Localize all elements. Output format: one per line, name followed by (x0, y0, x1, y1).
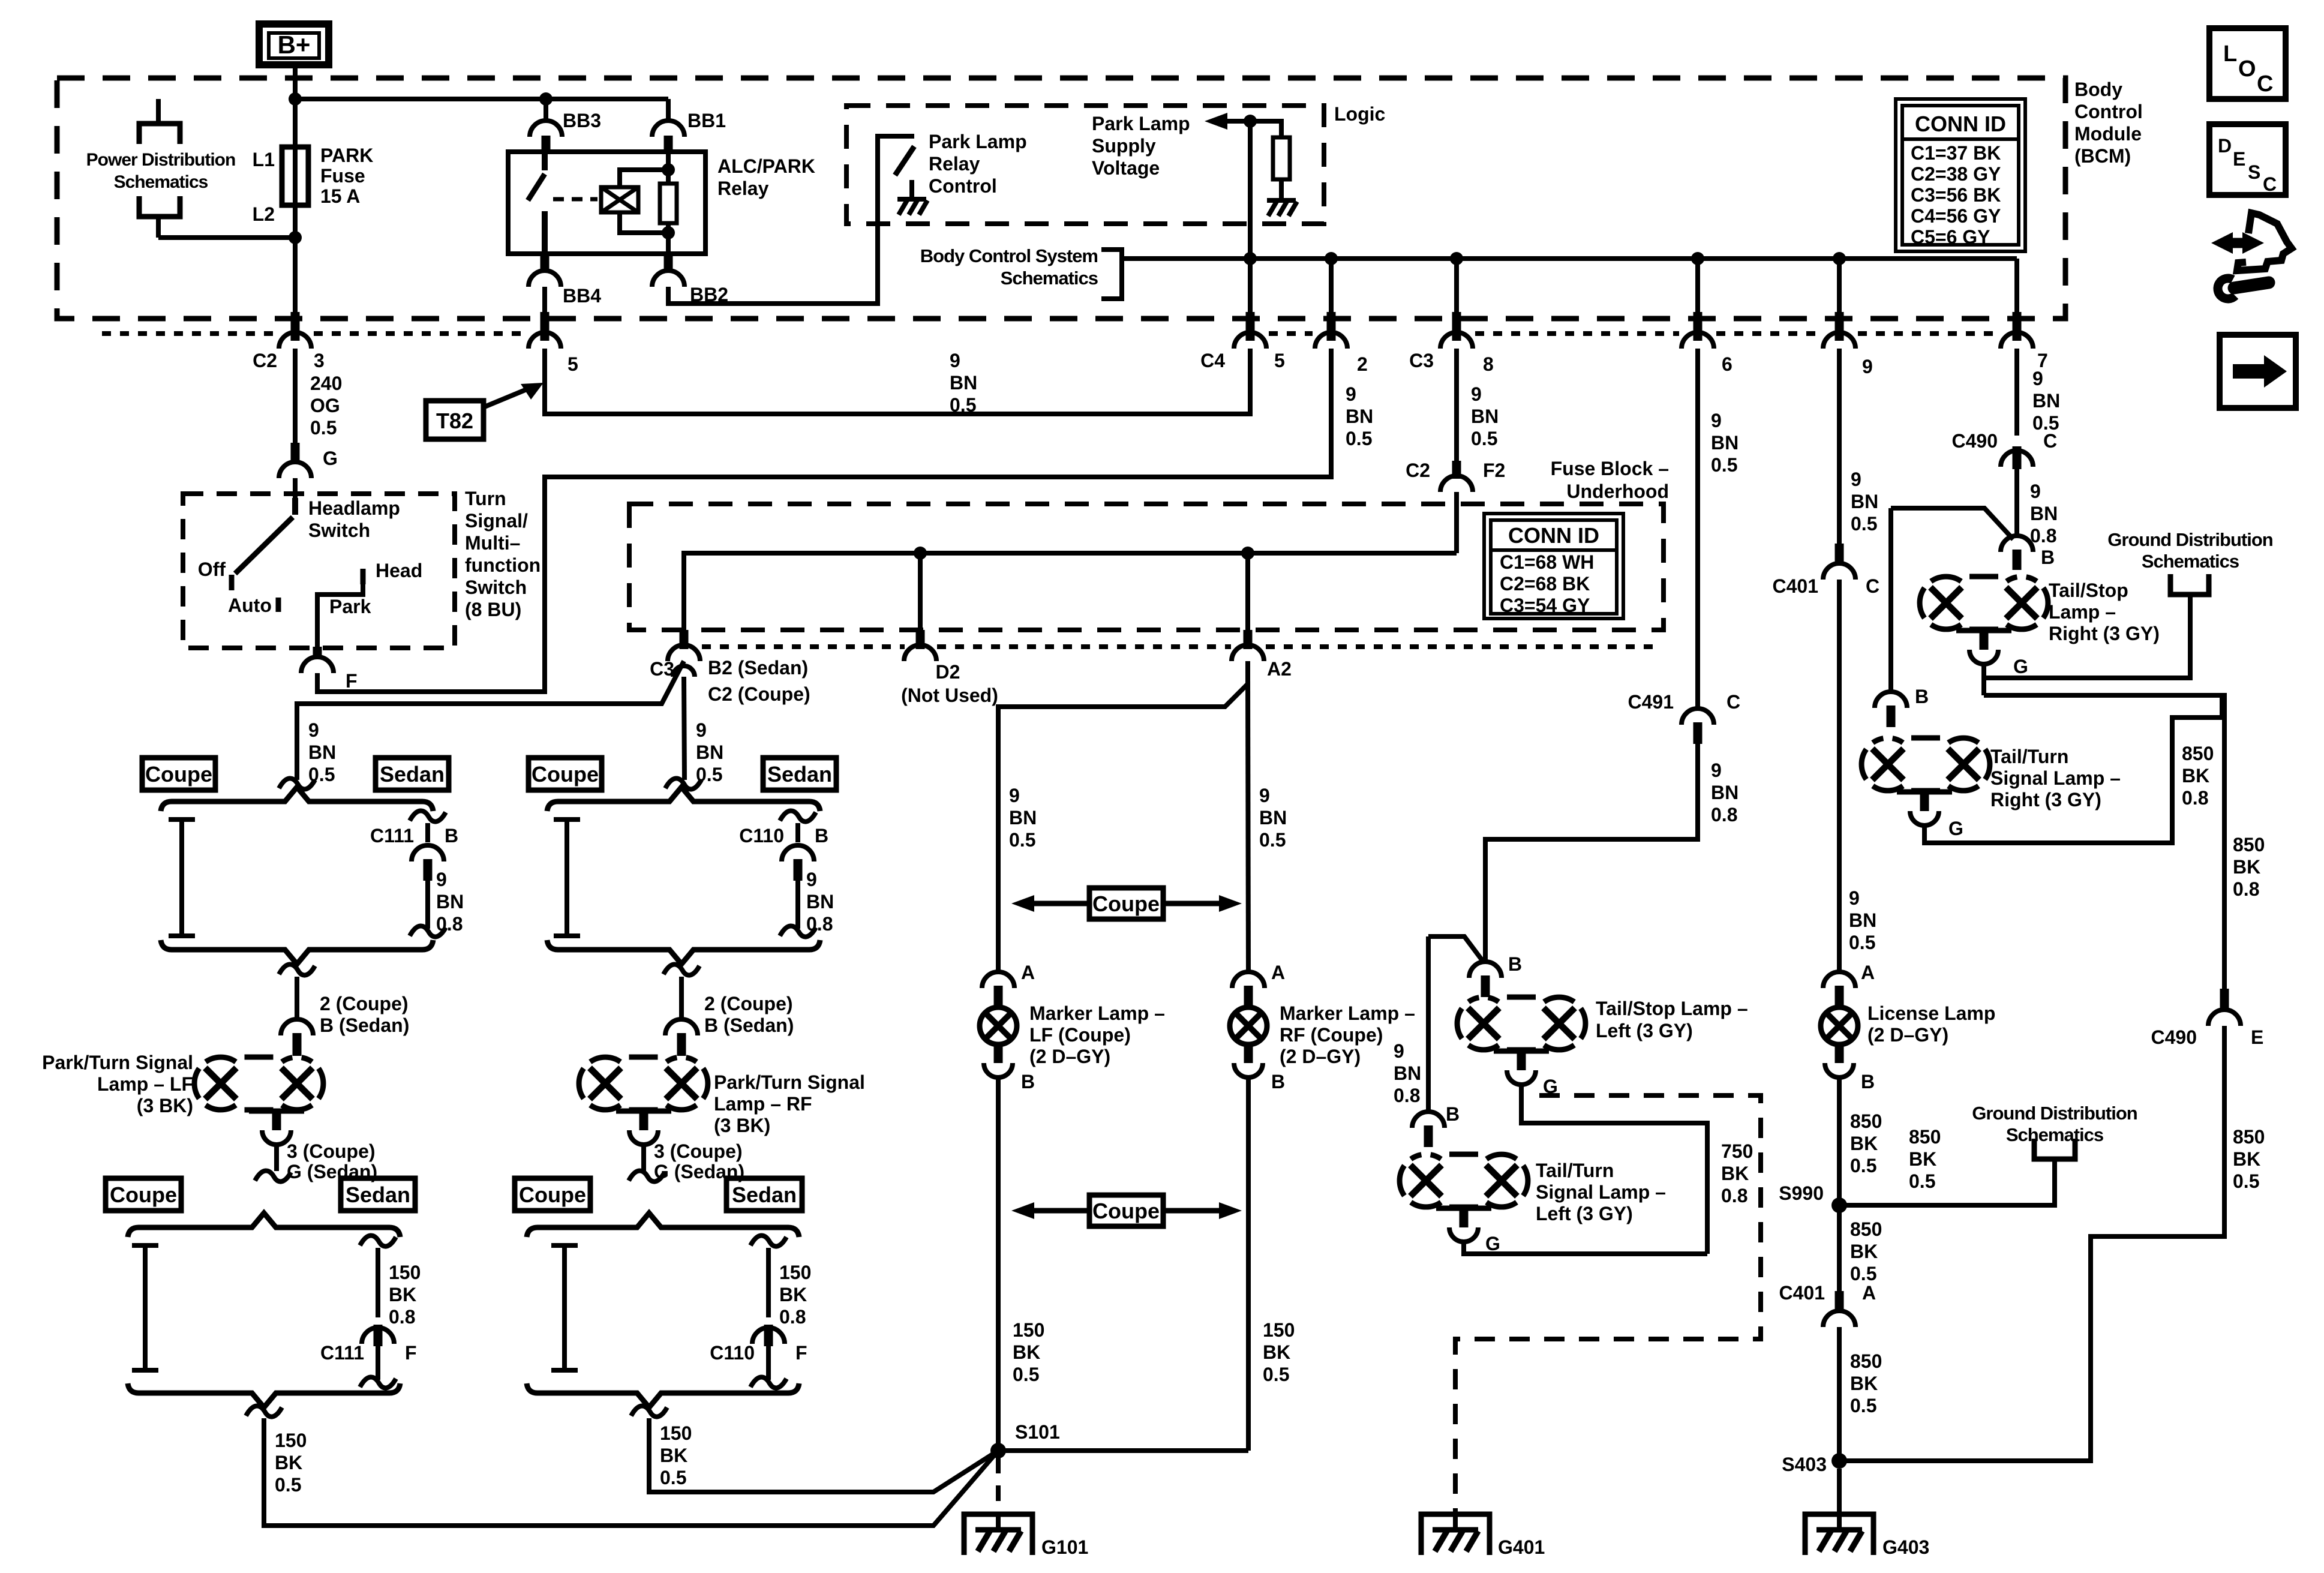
svg-text:(3 BK): (3 BK) (137, 1095, 193, 1116)
connector tail turn right pin B (1875, 692, 1907, 708)
wire Sedan rail LF upper (410, 810, 446, 821)
relay coil (601, 187, 638, 212)
junction dot bus pin6 (1691, 252, 1704, 265)
svg-text:850: 850 (2233, 834, 2265, 855)
svg-text:BK: BK (2233, 1148, 2260, 1170)
svg-text:Sedan: Sedan (767, 762, 832, 786)
svg-text:9: 9 (1471, 383, 1482, 405)
svg-text:(2 D–GY): (2 D–GY) (1029, 1046, 1110, 1067)
junction dot supply voltage (1244, 115, 1257, 128)
svg-text:BK: BK (1850, 1241, 1878, 1262)
svg-text:(3 BK): (3 BK) (714, 1115, 770, 1136)
brace LF options bottom (128, 1213, 400, 1237)
node Coupe option box LF bottom (106, 1178, 181, 1211)
node S101 splice (990, 1443, 1006, 1458)
wire connector dotted line fuse block (702, 644, 905, 649)
svg-text:Marker Lamp –: Marker Lamp – (1280, 1002, 1415, 1024)
dashed box Fuse Block Underhood (629, 504, 1664, 630)
wire BB4 down (542, 287, 547, 341)
node S990 splice (1831, 1197, 1847, 1213)
svg-text:BK: BK (1850, 1373, 1878, 1394)
svg-text:Sedan: Sedan (346, 1182, 410, 1207)
lamp Park/Turn Signal Lamp LF (205, 1068, 236, 1099)
connector pin 7 BCM (2013, 312, 2022, 341)
svg-text:BN: BN (1394, 1062, 1421, 1084)
svg-text:BK: BK (779, 1284, 807, 1305)
wire B+ feed to relay (295, 97, 668, 101)
wire tail stop right G main run (1984, 695, 2224, 989)
svg-text:5: 5 (568, 353, 578, 375)
svg-text:B2 (Sedan): B2 (Sedan) (708, 657, 808, 679)
svg-text:S990: S990 (1779, 1182, 1824, 1204)
svg-text:Coupe: Coupe (110, 1182, 177, 1207)
wire S990 down to C401-A (1837, 1205, 1842, 1293)
wire pin9 vertical (1837, 259, 1842, 341)
svg-text:Sedan: Sedan (732, 1182, 797, 1207)
icon DESC box (2209, 124, 2286, 195)
wire pin6 vertical (1695, 259, 1700, 341)
svg-text:C490: C490 (2151, 1026, 2197, 1048)
svg-text:CONN ID: CONN ID (1915, 112, 2006, 136)
wire fuse block internal rail (684, 553, 1457, 630)
svg-text:Signal Lamp –: Signal Lamp – (1536, 1181, 1666, 1203)
svg-text:850: 850 (1850, 1110, 1882, 1132)
connector pin 9 BCM (1835, 312, 1844, 341)
connector inline headlamp switch pin G (291, 443, 300, 463)
svg-text:0.8: 0.8 (436, 913, 463, 935)
svg-text:2: 2 (1357, 353, 1368, 375)
svg-text:B (Sedan): B (Sedan) (320, 1014, 409, 1036)
wire S403 ground stub (1837, 1469, 1842, 1514)
svg-text:Coupe: Coupe (145, 762, 212, 786)
brace LF options top close (161, 940, 433, 964)
svg-text:L1: L1 (253, 149, 275, 170)
svg-text:BN: BN (1711, 782, 1739, 803)
svg-text:Body Control System: Body Control System (920, 245, 1098, 266)
svg-text:0.5: 0.5 (1346, 428, 1372, 449)
wire to pull-up resistor (1250, 121, 1281, 139)
brace RF options top close (547, 940, 820, 964)
wire coil bottom (620, 212, 668, 233)
svg-text:Tail/Stop: Tail/Stop (2049, 580, 2128, 601)
wire A2 to RF marker (1248, 677, 1248, 972)
svg-text:0.5: 0.5 (660, 1467, 686, 1488)
wire A2 drop (1245, 553, 1250, 630)
svg-text:0.5: 0.5 (1850, 1263, 1876, 1284)
svg-text:C110: C110 (710, 1342, 755, 1364)
wire S101 to RF marker return (998, 1448, 1248, 1453)
svg-text:3 (Coupe): 3 (Coupe) (287, 1140, 376, 1162)
svg-text:D2: D2 (936, 661, 960, 683)
svg-text:5: 5 (1274, 350, 1285, 371)
svg-text:Supply: Supply (1092, 135, 1156, 157)
svg-text:C: C (2043, 430, 2057, 452)
svg-text:A: A (1862, 1282, 1876, 1304)
svg-text:Voltage: Voltage (1092, 157, 1160, 179)
icon dog troubleshooting hints (2223, 238, 2252, 248)
wire squiggle LF feed (279, 778, 315, 789)
connector C111 pin F (362, 1328, 394, 1344)
node Sedan option box RF top (763, 758, 836, 790)
svg-text:Park/Turn Signal: Park/Turn Signal (714, 1071, 865, 1093)
svg-text:BK: BK (1263, 1341, 1290, 1363)
connector C491 pin C (1682, 709, 1714, 725)
wire supply voltage arrow (1213, 119, 1250, 124)
svg-text:0.8: 0.8 (389, 1306, 415, 1328)
resistor logic pull-down (1273, 137, 1290, 179)
wire C2-3 down to headlamp switch (293, 349, 298, 443)
svg-text:C2=68 BK: C2=68 BK (1500, 573, 1590, 595)
wire Coupe rail RF (554, 817, 580, 822)
svg-text:Switch: Switch (308, 520, 370, 541)
wire BB4-5 jumper to C4-5 (545, 349, 1250, 414)
svg-text:C: C (1866, 575, 1879, 597)
connector D2 not used (916, 630, 925, 649)
node Coupe option arrows lower (1089, 1195, 1163, 1226)
connector marker LF pin B (994, 1044, 1003, 1063)
svg-text:BN: BN (1711, 432, 1739, 454)
svg-text:BK: BK (1850, 1133, 1878, 1154)
wire license return to S990 (1837, 1077, 1842, 1205)
svg-text:BK: BK (2182, 765, 2209, 786)
svg-text:A2: A2 (1267, 658, 1292, 680)
reference bracket Power Distribution Schematics (156, 99, 161, 124)
junction dot coil bottom (662, 226, 675, 239)
wire Sedan rail RF upper (780, 810, 816, 821)
connector BB3 relay pin (544, 99, 548, 121)
svg-text:BK: BK (2233, 856, 2260, 878)
svg-text:L: L (2223, 41, 2237, 67)
svg-text:BB1: BB1 (687, 110, 726, 131)
svg-text:Park: Park (329, 596, 371, 617)
wire park turn RF ground pin (616, 1109, 671, 1114)
svg-text:G401: G401 (1498, 1536, 1545, 1558)
svg-text:S101: S101 (1015, 1421, 1060, 1443)
svg-text:C2 (Coupe): C2 (Coupe) (708, 683, 810, 705)
connector tail stop right pin B (2001, 536, 2033, 552)
svg-text:Relay: Relay (929, 153, 980, 175)
connector C490 pin E (2220, 989, 2229, 1010)
svg-text:Signal/: Signal/ (465, 510, 528, 532)
svg-text:C111: C111 (320, 1342, 364, 1364)
svg-text:(BCM): (BCM) (2074, 145, 2131, 167)
brace LF options top (161, 787, 433, 811)
svg-text:(2 D–GY): (2 D–GY) (1867, 1024, 1948, 1046)
svg-text:BN: BN (950, 372, 977, 394)
connector C2 pin F2 fuse block (1452, 461, 1461, 479)
svg-text:850: 850 (1850, 1218, 1882, 1240)
svg-text:S: S (2248, 161, 2260, 183)
svg-text:BN: BN (696, 742, 723, 763)
lamp License Lamp (1821, 1007, 1858, 1044)
svg-text:150: 150 (275, 1430, 307, 1451)
svg-text:Switch: Switch (465, 577, 527, 598)
svg-text:0.8: 0.8 (2233, 878, 2259, 900)
svg-text:850: 850 (2233, 1126, 2265, 1148)
svg-text:B: B (1915, 686, 1929, 707)
node Sedan option box LF top (376, 758, 449, 790)
svg-text:150: 150 (1263, 1319, 1295, 1341)
wire RF to park turn lamp (663, 964, 699, 975)
svg-text:C3=54 GY: C3=54 GY (1500, 595, 1590, 616)
svg-text:OG: OG (310, 395, 340, 416)
wire squiggle RF lower (629, 1170, 665, 1181)
icon LOC box (2209, 28, 2286, 99)
junction dot bus C4-5 (1244, 252, 1257, 265)
svg-text:G101: G101 (1041, 1536, 1088, 1558)
connector BB2 relay pin (664, 254, 673, 272)
svg-text:9: 9 (1862, 356, 1873, 377)
svg-text:C491: C491 (1628, 691, 1674, 713)
svg-text:C2: C2 (1406, 460, 1430, 481)
svg-text:0.5: 0.5 (1850, 1395, 1876, 1416)
wire tail stop left ground pin G (1494, 1049, 1549, 1054)
wire squiggle RF feed (665, 778, 701, 789)
svg-text:F: F (795, 1342, 807, 1364)
svg-text:function: function (465, 554, 541, 576)
junction dot below fuse (289, 231, 302, 244)
svg-text:Signal Lamp –: Signal Lamp – (1990, 767, 2121, 789)
svg-text:BN: BN (1346, 406, 1373, 427)
connector license lamp pin A (1823, 972, 1855, 988)
wire tail stop right ground pin G (1956, 628, 2011, 634)
node Coupe option box RF top (529, 758, 602, 790)
wire tail turn right G run (1924, 695, 2222, 843)
dashed box Headlamp Switch (183, 494, 455, 648)
ground G403 (1805, 1514, 1873, 1555)
svg-text:C2: C2 (253, 350, 277, 371)
lamp Tail/Stop Lamp Right (1930, 587, 1962, 619)
svg-text:Right (3 GY): Right (3 GY) (2049, 623, 2160, 644)
svg-text:0.5: 0.5 (1851, 513, 1877, 535)
connector pin 5 BCM (541, 312, 550, 341)
wire C401 to license lamp (1837, 580, 1842, 972)
svg-text:G: G (323, 448, 338, 469)
connector BB4 relay pin (541, 254, 550, 272)
svg-text:9: 9 (436, 869, 447, 890)
svg-text:C5=6 GY: C5=6 GY (1911, 226, 1990, 248)
svg-text:Power Distribution: Power Distribution (86, 150, 236, 170)
svg-text:F2: F2 (1483, 460, 1505, 481)
svg-text:(2 D–GY): (2 D–GY) (1280, 1046, 1361, 1067)
svg-text:B (Sedan): B (Sedan) (704, 1014, 794, 1036)
svg-text:BB4: BB4 (563, 285, 601, 307)
svg-text:0.5: 0.5 (1711, 454, 1737, 476)
wire 750 BK dashed ground run to G401 (1455, 1095, 1761, 1514)
svg-text:BK: BK (660, 1445, 687, 1466)
connector park turn LF pin 2-B (281, 1019, 313, 1035)
svg-text:2 (Coupe): 2 (Coupe) (320, 993, 409, 1014)
svg-text:9: 9 (1711, 760, 1722, 781)
wire Coupe rail RF bottom (551, 1243, 578, 1248)
svg-text:Lamp –: Lamp – (2049, 601, 2116, 623)
wire C401-A to S403 (1837, 1327, 1842, 1461)
svg-text:G403: G403 (1882, 1536, 1929, 1558)
wire marker RF return (1246, 1077, 1251, 1451)
svg-text:L2: L2 (253, 203, 275, 225)
node S403 splice (1831, 1453, 1847, 1469)
svg-text:0.8: 0.8 (806, 913, 833, 935)
wire Sedan rail LF bottom (360, 1235, 396, 1246)
svg-text:9: 9 (1259, 785, 1270, 806)
ground park lamp relay control internal (909, 180, 914, 199)
lamp Marker Lamp LF (980, 1007, 1017, 1044)
svg-text:Tail/Stop Lamp –: Tail/Stop Lamp – (1596, 998, 1748, 1019)
svg-text:A: A (1861, 962, 1875, 983)
svg-text:Schematics: Schematics (114, 172, 208, 192)
connector marker RF pin B (1244, 1044, 1253, 1063)
wire tail turn right ground pin G (1897, 789, 1952, 795)
svg-text:CONN ID: CONN ID (1508, 523, 1599, 548)
wire D2 drop (918, 553, 923, 630)
wire marker LF return (996, 1077, 1001, 1451)
junction dot bus C3-8 (1450, 252, 1463, 265)
svg-text:Multi–: Multi– (465, 532, 520, 554)
svg-text:150: 150 (389, 1262, 421, 1283)
svg-text:G: G (1485, 1233, 1500, 1254)
wire C3-B2 to LF branch (297, 661, 684, 780)
svg-text:T82: T82 (436, 409, 473, 433)
wire C3-B2 to RF branch (684, 677, 684, 780)
svg-text:(8 BU): (8 BU) (465, 599, 521, 620)
svg-text:ALC/PARK: ALC/PARK (717, 155, 815, 177)
wire bus corner to pin7 (2014, 259, 2019, 341)
svg-text:BN: BN (436, 891, 464, 912)
node Sedan option box RF bottom (726, 1178, 802, 1211)
svg-text:BK: BK (389, 1284, 416, 1305)
junction dot bus pin2 (1325, 252, 1338, 265)
svg-text:9: 9 (1394, 1040, 1404, 1062)
svg-text:Schematics: Schematics (2142, 551, 2239, 572)
svg-text:C111: C111 (370, 825, 414, 846)
svg-text:9: 9 (1711, 410, 1722, 431)
wire branch to tail turn right pin B (1891, 508, 2013, 539)
junction dot B+ feed split (289, 92, 302, 106)
svg-text:C401: C401 (1773, 575, 1819, 597)
svg-text:BN: BN (1009, 807, 1037, 828)
svg-text:Fuse: Fuse (320, 165, 365, 187)
svg-text:0.5: 0.5 (1850, 1155, 1876, 1176)
svg-text:B: B (815, 825, 828, 846)
svg-text:9: 9 (696, 719, 707, 741)
svg-text:Schematics: Schematics (1001, 268, 1098, 289)
svg-text:B: B (445, 825, 458, 846)
svg-text:0.5: 0.5 (2233, 1170, 2259, 1192)
svg-text:Left (3 GY): Left (3 GY) (1596, 1020, 1693, 1041)
svg-text:Underhood: Underhood (1566, 481, 1669, 502)
svg-text:150: 150 (1013, 1319, 1044, 1341)
table CONN ID fuse block (1484, 514, 1623, 619)
svg-text:0.8: 0.8 (779, 1306, 806, 1328)
relay switch blade (542, 152, 548, 170)
svg-text:Off: Off (198, 559, 226, 580)
svg-text:Module: Module (2074, 123, 2142, 145)
svg-text:Coupe: Coupe (519, 1182, 586, 1207)
svg-text:C401: C401 (1779, 1282, 1825, 1304)
svg-text:B: B (1446, 1103, 1460, 1125)
wire tail stop right G to ground ref (1981, 664, 1986, 695)
wire RF ground run to S101 (631, 1406, 667, 1416)
brace RF options top (547, 787, 820, 811)
dashed box Logic block (846, 106, 1324, 224)
svg-text:Left (3 GY): Left (3 GY) (1536, 1203, 1633, 1224)
svg-text:BK: BK (1909, 1148, 1936, 1170)
svg-text:6: 6 (1722, 353, 1733, 375)
svg-text:F: F (405, 1342, 417, 1364)
svg-text:Head: Head (376, 560, 422, 581)
node T82 testpoint callout (426, 401, 484, 439)
lamp Tail/Turn Signal Lamp Left (1410, 1165, 1442, 1196)
svg-text:150: 150 (660, 1422, 692, 1444)
svg-text:0.8: 0.8 (2030, 525, 2056, 547)
wire Coupe rail LF (169, 817, 195, 822)
wire LF ground run to S101 (246, 1406, 282, 1416)
svg-text:Park Lamp: Park Lamp (929, 131, 1027, 152)
node B+ battery feed box (259, 24, 329, 65)
resistor relay internal (666, 152, 671, 185)
wire head-park link (317, 582, 363, 646)
svg-text:9: 9 (2030, 481, 2041, 502)
svg-text:Right (3 GY): Right (3 GY) (1990, 789, 2101, 810)
switch park lamp relay control driver (895, 146, 914, 175)
svg-text:BN: BN (2030, 503, 2058, 524)
connector license lamp pin B (1835, 1044, 1844, 1063)
wire C490-E to S403 (1839, 1026, 2224, 1461)
connector park turn RF pin 2-B (665, 1019, 698, 1035)
wire tail turn left G run (1464, 1242, 1707, 1254)
svg-text:C3: C3 (650, 658, 674, 680)
svg-text:0.5: 0.5 (1471, 428, 1497, 449)
wire Coupe rail LF bottom (132, 1243, 158, 1248)
svg-text:0.5: 0.5 (1263, 1364, 1289, 1385)
connector A2 fuse block (1244, 630, 1253, 649)
svg-text:C: C (2257, 71, 2273, 97)
svg-text:9: 9 (2032, 368, 2043, 389)
svg-text:C: C (2263, 173, 2277, 195)
svg-text:0.5: 0.5 (1009, 829, 1035, 851)
svg-text:0.5: 0.5 (1909, 1170, 1935, 1192)
svg-text:BB3: BB3 (563, 110, 601, 131)
svg-text:Turn: Turn (465, 488, 506, 509)
svg-text:BN: BN (1849, 909, 1876, 931)
svg-text:BN: BN (1851, 491, 1878, 512)
svg-text:3 (Coupe): 3 (Coupe) (654, 1140, 743, 1162)
wire tail turn left ground pin G (1436, 1206, 1491, 1211)
svg-text:150: 150 (779, 1262, 811, 1283)
svg-text:BK: BK (275, 1452, 302, 1473)
node Coupe option box LF top (142, 758, 215, 790)
svg-text:0.8: 0.8 (1394, 1085, 1420, 1106)
connector pin 2 BCM (1327, 312, 1336, 341)
svg-text:A: A (1271, 962, 1285, 983)
svg-text:B+: B+ (278, 31, 311, 59)
svg-text:B: B (1271, 1071, 1285, 1092)
wire tail stop left G run (1521, 1085, 1707, 1254)
svg-text:0.5: 0.5 (310, 417, 337, 439)
svg-text:2 (Coupe): 2 (Coupe) (704, 993, 793, 1014)
svg-text:Control: Control (929, 175, 997, 197)
connector C490 pin C (2001, 451, 2033, 467)
connector C401 pin C (1835, 544, 1844, 564)
svg-text:O: O (2238, 56, 2256, 82)
wire LF to park turn lamp (279, 964, 315, 975)
svg-text:Marker Lamp –: Marker Lamp – (1029, 1002, 1165, 1024)
connector C4 pin 5 BCM (1246, 312, 1255, 341)
svg-text:Headlamp: Headlamp (308, 497, 400, 519)
connector inline switch pin F (315, 646, 320, 658)
svg-text:Relay: Relay (717, 178, 769, 199)
svg-text:S403: S403 (1782, 1454, 1827, 1475)
